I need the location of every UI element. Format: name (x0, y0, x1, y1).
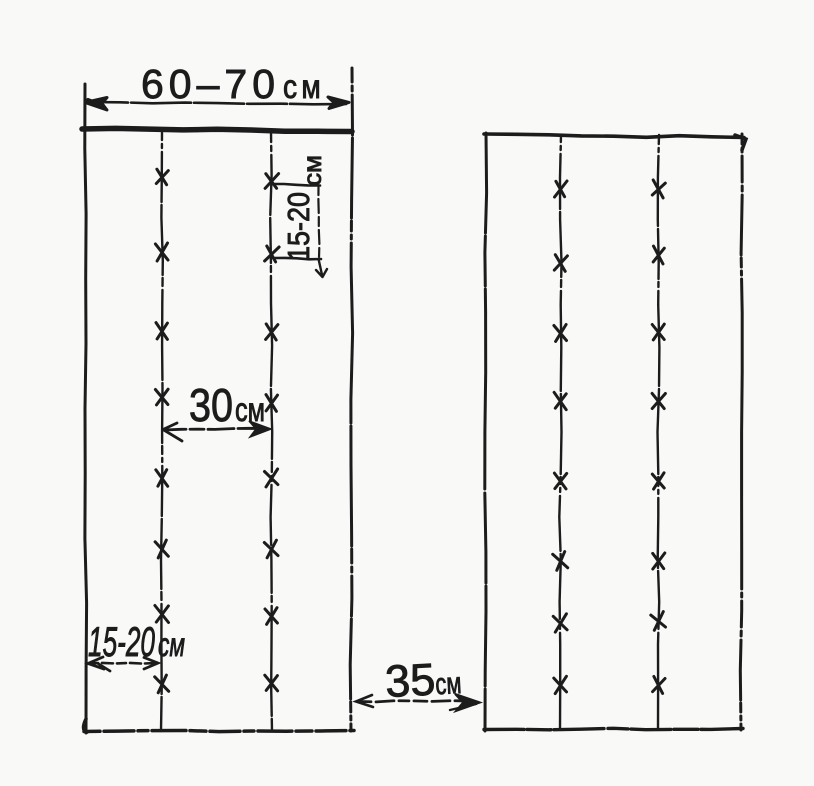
svg-text:60–70см: 60–70см (141, 61, 325, 107)
plant mark X row2 #2 (265, 246, 280, 262)
plant mark X row3 #6 (553, 552, 568, 571)
left bed: right edge with dimension extension above (350, 68, 352, 731)
left bed: bottom-left corner hook (84, 719, 88, 732)
right bed: left edge (485, 133, 487, 731)
plant mark X row3 #4 (554, 392, 566, 409)
svg-text:см: см (299, 155, 327, 186)
plant mark X row1 #4 (155, 389, 168, 405)
row line 3 (right bed) (559, 135, 561, 729)
plant mark X row2 #6 (264, 540, 278, 558)
dim 15-20cm bottom: left arrowhead (88, 657, 110, 671)
dimension 60-70cm: right arrowhead (328, 97, 349, 109)
left bed: left edge (85, 84, 87, 733)
plant mark X row4 #2 (653, 246, 664, 264)
dim 35cm: right arrowhead (filled) (455, 694, 480, 711)
dim 15-20cm bottom: right arrowhead (144, 658, 158, 670)
left bed: bottom edge (dashed) (84, 731, 354, 732)
plant mark X row2 #4 (266, 395, 278, 412)
plant mark X row1 #1 (156, 169, 168, 185)
plant mark X row2 #1 (265, 174, 279, 189)
plant mark X row1 #2 (155, 243, 168, 261)
dim 15-20cm vertical: dimension line (318, 186, 319, 258)
dim 30cm: right arrowhead (249, 421, 271, 437)
dim 15-20cm vertical: bottom tick (273, 258, 321, 259)
plant mark X row3 #3 (554, 325, 567, 342)
row line 1 (left bed) (161, 132, 163, 731)
plant mark X row3 #8 (554, 676, 567, 693)
dim 15-20cm bottom: dashed double arrow (89, 662, 156, 665)
plant mark X row1 #3 (156, 323, 167, 340)
plant mark X row4 #6 (653, 553, 665, 569)
plant mark X row1 #7 (155, 606, 169, 623)
plant mark X row4 #3 (652, 324, 664, 340)
plant mark X row4 #8 (653, 677, 665, 694)
dim 30cm: left hook (163, 423, 182, 441)
plant mark X row1 #5 (156, 470, 168, 487)
plant mark X row4 #7 (651, 612, 666, 631)
dimension 60-70cm: left arrowhead (85, 98, 107, 111)
left bed: top edge (thick) (82, 128, 352, 131)
dimension 60-70cm: line (88, 102, 346, 104)
dim 35cm: dashed arrow line (358, 701, 470, 702)
right bed: right edge (dash-dot) (740, 134, 742, 730)
plant mark X row3 #5 (554, 473, 566, 489)
plant mark X row4 #1 (652, 180, 665, 198)
plant mark X row3 #2 (554, 255, 567, 272)
right bed: bottom edge (484, 728, 743, 730)
plant mark X row2 #8 (265, 675, 278, 691)
dim 15-20cm vertical: lower overshoot with arrow (316, 259, 327, 277)
plant mark X row3 #1 (555, 181, 568, 197)
svg-text:15-20: 15-20 (281, 192, 316, 261)
plant mark X row2 #3 (266, 324, 278, 340)
plant mark X row4 #5 (652, 473, 664, 489)
row line 2 (left bed) (270, 132, 272, 731)
right bed: top right corner blob (735, 135, 746, 150)
right bed: top edge (484, 134, 744, 138)
plant mark X row1 #6 (155, 540, 168, 558)
plant mark X row2 #5 (265, 469, 278, 487)
dim 30cm: arrow line (164, 428, 266, 430)
plant mark X row4 #4 (652, 393, 665, 408)
row line 4 (right bed) (658, 135, 660, 729)
plant mark X row1 #8 (155, 675, 169, 693)
dim 15-20cm vertical: top tick (272, 184, 320, 186)
svg-text:35см: 35см (384, 652, 463, 707)
dim 35cm: left arrowhead (356, 695, 373, 707)
plant mark X row3 #7 (553, 614, 567, 632)
plant mark X row2 #7 (265, 608, 277, 625)
